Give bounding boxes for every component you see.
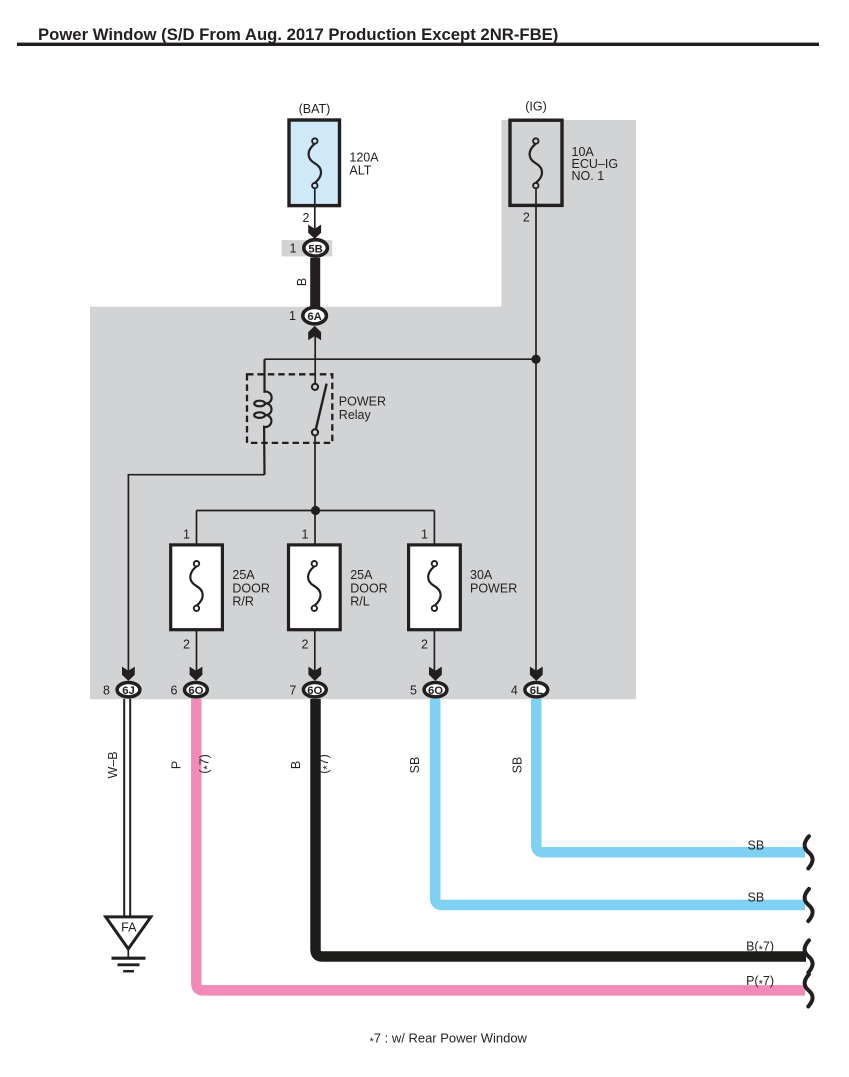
svg-text:DOOR: DOOR [232,581,270,595]
connector 6O no.5 [424,683,447,698]
relay switch top contact [312,384,318,390]
svg-text:SB: SB [748,838,765,852]
svg-text:2: 2 [302,638,309,652]
wire bus drop left [196,511,198,546]
wire W-B from 6J to ground (double line) [124,699,130,917]
svg-text:1: 1 [302,528,309,542]
arrow into 6O no.6 [190,667,203,681]
fuse 25A DOOR R/L [289,545,341,630]
break mark P wire [805,974,813,1006]
wire relay switch to fuse bus [314,436,316,511]
svg-text:R/L: R/L [350,595,370,609]
svg-text:Power Window (S/D From Aug. 20: Power Window (S/D From Aug. 2017 Product… [38,25,558,44]
node junction on IG wire [531,355,540,364]
svg-text:1: 1 [290,241,297,255]
svg-text:DOOR: DOOR [350,581,388,595]
arrow into 6J [122,667,135,681]
relay coil [254,359,271,475]
wire relay coil to junction [265,358,537,360]
svg-text:5B: 5B [308,243,322,255]
svg-text:B: B [295,278,309,286]
svg-text:SB: SB [511,757,525,774]
svg-text:6A: 6A [307,311,321,323]
shaded junction-block background [90,120,636,699]
svg-text:B: B [289,761,303,769]
break mark B wire [805,940,813,972]
fuse 10A ECU-IG NO.1 (IG) [510,120,562,205]
svg-text:NO. 1: NO. 1 [572,169,605,183]
svg-text:30A: 30A [470,568,493,582]
arrow into 6O no.5 [429,667,442,681]
ground symbol [112,958,146,971]
svg-text:1: 1 [421,528,428,542]
arrow into 6O no.7 [308,667,321,681]
svg-text:(BAT): (BAT) [299,102,331,116]
svg-text:SB: SB [748,891,765,905]
svg-text:POWER: POWER [470,581,517,595]
wire relay coil to 6J [128,475,264,673]
wire P from 6O no.6 [196,699,805,991]
svg-text:ALT: ALT [349,164,371,178]
svg-text:1: 1 [183,528,190,542]
break mark 6O no.5 wire [805,889,813,921]
arrow into 5B [308,225,321,239]
connector 5B [304,240,328,256]
svg-text:POWER: POWER [339,395,386,409]
arrow into 6L [530,667,543,681]
arrow up out of 6A [308,326,321,340]
wire FA to ground [127,946,129,958]
wire fuse bus [197,510,435,512]
svg-text:6: 6 [170,683,177,697]
svg-text:(*7): (*7) [198,754,215,774]
svg-text:SB: SB [408,757,422,774]
connector 6L [525,683,548,698]
svg-text:6O: 6O [428,685,443,697]
svg-text:FA: FA [121,921,137,935]
wire IG fuse down to 6L [535,188,537,673]
wire bus drop right [433,511,435,546]
svg-text:2: 2 [421,638,428,652]
svg-text:P: P [170,761,184,769]
connector 6O no.7 [303,683,326,698]
svg-text:6J: 6J [122,685,135,697]
svg-text:120A: 120A [349,151,379,165]
svg-text:2: 2 [523,211,530,225]
svg-text:R/R: R/R [232,595,254,609]
svg-text:(*7): (*7) [317,754,334,774]
svg-text:25A: 25A [350,568,373,582]
wire SB from 6L [536,699,805,852]
svg-text:6L: 6L [530,685,543,697]
wire 6A to relay switch [314,335,316,384]
fuse 120A ALT (BAT) [289,120,340,206]
svg-text:2: 2 [183,638,190,652]
svg-text:2: 2 [303,211,310,225]
wire BAT fuse to 5B [314,188,316,231]
relay switch blade [316,384,327,431]
wire B (thick) 5B to 6A [310,258,320,307]
wire 30A POWER to 6O [433,630,435,673]
svg-text:7: 7 [289,683,296,697]
break mark 6L wire [805,836,813,868]
svg-text:Relay: Relay [339,408,372,422]
svg-text:6O: 6O [307,685,322,697]
connector 6A [303,308,327,324]
svg-text:W–B: W–B [106,751,120,778]
svg-text:6O: 6O [188,685,203,697]
wire SB from 6O no.5 [435,699,805,905]
wire B from 6O no.7 [316,699,807,957]
connector 6J [117,683,140,698]
svg-text:1: 1 [289,309,296,323]
node bus junction [311,506,320,515]
shaded strip behind connector 5B [282,240,333,256]
relay switch bottom contact [312,429,318,435]
svg-text:*7 : w/ Rear Power Window: *7 : w/ Rear Power Window [370,1031,528,1049]
wire bus drop middle [314,511,316,546]
fuse 30A POWER [409,545,461,630]
svg-text:25A: 25A [232,568,255,582]
fuse 25A DOOR R/R [171,545,223,630]
svg-text:4: 4 [511,683,518,697]
svg-text:5: 5 [410,683,417,697]
wire 25A DOOR R/R to 6O [196,630,198,673]
title Power Window [17,25,819,46]
svg-text:(IG): (IG) [525,100,547,114]
svg-text:8: 8 [103,683,110,697]
connector 6O no.6 [185,683,208,698]
wire 25A DOOR R/L to 6O [314,630,316,673]
relay POWER dashed box [247,374,332,443]
ground FA triangle [106,917,151,949]
